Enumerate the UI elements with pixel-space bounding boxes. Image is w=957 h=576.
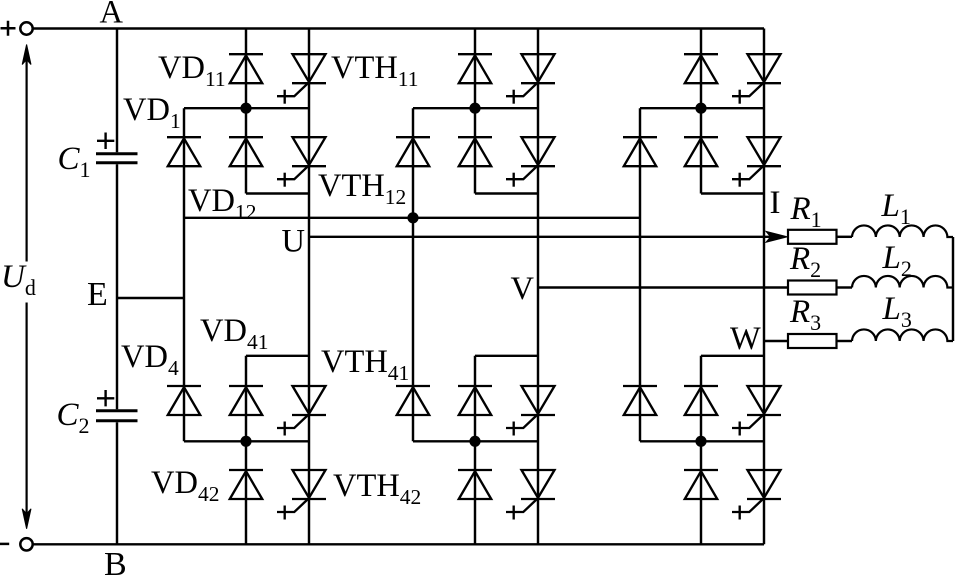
- diode VD42: [229, 470, 263, 499]
- wire thyristor column leg W: [763, 29, 765, 545]
- wire diode column leg U lower: [245, 356, 247, 545]
- wire R2 to L2: [837, 286, 853, 288]
- thyristor leg V row 2: [506, 137, 555, 187]
- voltage arrow Ud (double-headed): [22, 45, 31, 529]
- wire midpoint link leg V lower: [413, 440, 538, 442]
- svg-text:B: B: [104, 546, 127, 576]
- resistor R1: [788, 230, 837, 244]
- junction node leg W upper midpoint: [695, 103, 706, 114]
- thyristor leg W row 4: [732, 470, 781, 520]
- wire clamp column leg V: [412, 108, 414, 441]
- clamp diode leg W upper: [623, 137, 657, 166]
- diode VD12: [229, 137, 263, 166]
- diode leg V row 4: [458, 470, 492, 499]
- wire midpoint link leg U upper: [184, 107, 309, 109]
- svg-text:W: W: [730, 321, 761, 357]
- node E tap wire: [117, 297, 184, 299]
- svg-text:I: I: [770, 185, 781, 221]
- diode VD11: [229, 54, 263, 83]
- wire load star-point bus: [952, 237, 954, 341]
- wire half-bridge input link leg W lower: [701, 355, 764, 357]
- wire thyristor column leg V: [537, 29, 539, 545]
- wire bottom DC rail (node B): [33, 543, 764, 545]
- thyristor leg W row 1: [732, 54, 781, 103]
- wire half-bridge output link leg U upper: [246, 192, 309, 194]
- polarity + of C2: [97, 390, 114, 406]
- wire clamp column leg U (VD1/VD4): [183, 108, 185, 441]
- diode leg W upper antiparallel: [684, 54, 718, 83]
- wire half-bridge input link leg U lower: [246, 355, 309, 357]
- inductor L2: [852, 276, 953, 288]
- wire diode column leg W lower: [700, 356, 702, 545]
- wire clamp column leg W: [639, 108, 641, 441]
- wire capacitor column lower: [116, 422, 118, 544]
- thyristor VTH41: [277, 386, 326, 436]
- capacitor C2: [96, 411, 138, 421]
- polarity + of C1: [97, 133, 114, 150]
- diode leg W row 2: [684, 137, 718, 166]
- wire midpoint link leg W lower: [640, 440, 764, 442]
- diode VD41: [229, 386, 263, 415]
- wire capacitor column upper: [116, 29, 118, 153]
- diode leg W row 3: [684, 386, 718, 415]
- diode leg V row 3: [458, 386, 492, 415]
- svg-text:U: U: [282, 224, 305, 260]
- terminal - (DC negative input): [0, 543, 9, 546]
- wire phase U output line: [309, 236, 770, 238]
- wire phase W output line: [764, 340, 788, 342]
- svg-text:V: V: [511, 271, 535, 307]
- diode leg V row 2: [458, 137, 492, 166]
- wire midpoint link leg V upper: [413, 107, 538, 109]
- junction node leg U upper midpoint: [240, 103, 251, 114]
- clamp diode leg V upper: [396, 137, 430, 166]
- thyristor VTH42: [277, 470, 326, 520]
- wire diode column leg V lower: [474, 356, 476, 545]
- wire top DC rail (node A): [33, 27, 764, 29]
- inductor L1: [852, 225, 953, 237]
- capacitor C1: [96, 154, 138, 163]
- thyristor leg V row 4: [506, 470, 555, 520]
- wire phase V output line: [538, 286, 788, 288]
- svg-text:A: A: [100, 0, 124, 31]
- inductor L3: [852, 329, 953, 341]
- junction node leg V lower midpoint: [469, 436, 480, 447]
- clamp diode leg V lower: [396, 386, 430, 415]
- wire thyristor column leg U: [308, 29, 310, 545]
- junction node leg W lower midpoint: [695, 436, 706, 447]
- junction node E bus at leg V: [407, 212, 418, 223]
- wire R1 to L1: [837, 236, 853, 238]
- wire half-bridge output link leg V upper: [475, 192, 538, 194]
- current arrow I on phase U line: [770, 236, 771, 238]
- thyristor leg V row 1: [506, 54, 555, 103]
- thyristor leg W row 2: [732, 137, 781, 187]
- thyristor leg V row 3: [506, 386, 555, 436]
- wire diode column leg V upper: [474, 29, 476, 194]
- thyristor VTH11: [277, 54, 326, 103]
- wire midpoint link leg U lower: [184, 440, 309, 442]
- wire half-bridge input link leg V lower: [475, 355, 538, 357]
- resistor R3: [788, 334, 837, 348]
- svg-text:E: E: [87, 276, 108, 313]
- terminal + (DC positive input): [1, 21, 16, 36]
- wire half-bridge output link leg W upper: [701, 192, 764, 194]
- clamp diode leg W lower: [623, 386, 657, 415]
- wire diode column leg U upper: [245, 29, 247, 194]
- diode leg V upper antiparallel: [458, 54, 492, 83]
- wire diode column leg W upper: [700, 29, 702, 194]
- junction node leg V upper midpoint: [469, 103, 480, 114]
- thyristor VTH12: [277, 137, 326, 187]
- diode leg W row 4: [684, 470, 718, 499]
- clamp diode VD4: [167, 386, 201, 415]
- wire capacitor column middle: [116, 164, 118, 409]
- wire R3 to L3: [837, 340, 853, 342]
- clamp diode VD1: [167, 137, 201, 166]
- wire neutral bus E across legs: [184, 217, 640, 219]
- thyristor leg W row 3: [732, 386, 781, 436]
- resistor R2: [788, 281, 837, 295]
- wire midpoint link leg W upper: [640, 107, 764, 109]
- junction node leg U lower midpoint: [240, 436, 251, 447]
